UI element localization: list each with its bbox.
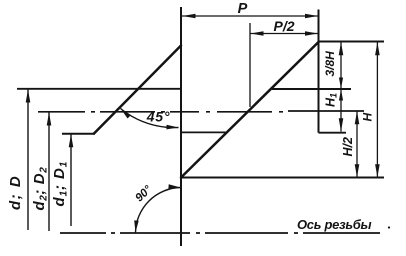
arrowhead H/2 top <box>355 111 360 124</box>
svg-text:3/8H: 3/8H <box>323 51 337 77</box>
arrowhead d;D <box>26 90 31 103</box>
major diameter line left (d;D level) <box>17 88 181 90</box>
major diameter line right (3/8H boundary) <box>272 88 351 90</box>
dimension line H/2 <box>356 111 358 178</box>
period speck after axis label <box>388 226 390 228</box>
angle arc 90deg <box>136 188 181 233</box>
arrowhead 45 upper on flank <box>121 109 131 119</box>
arrowhead 3/8H top <box>339 42 344 55</box>
svg-text:d2; D2: d2; D2 <box>31 167 50 211</box>
arrowhead d2;D2 <box>47 113 52 126</box>
arrowhead 90 upper on vertical <box>168 184 180 189</box>
arrowhead 3/8H bottom <box>339 78 343 89</box>
arrowhead 45 lower on vertical <box>166 125 178 130</box>
arrowhead P left <box>183 14 196 19</box>
arrowhead P/2 left <box>251 31 264 36</box>
arrowhead P/2 right <box>305 31 318 36</box>
svg-text:P: P <box>238 1 248 17</box>
left thread flank 45deg <box>94 46 181 134</box>
arrowhead H bottom <box>375 164 380 177</box>
svg-text:P/2: P/2 <box>273 18 294 34</box>
svg-text:d1; D1: d1; D1 <box>51 161 70 207</box>
dimension line d;D <box>27 89 29 230</box>
pitch line dash-dot <box>38 111 283 113</box>
root line bottom of fundamental triangle <box>181 177 384 179</box>
svg-text:45°: 45° <box>146 109 171 125</box>
svg-text:Ось резьбы: Ось резьбы <box>297 217 372 232</box>
dimension line H <box>376 42 378 178</box>
arrowhead 90 lower on axis <box>134 220 139 232</box>
dimension line 3/8H and H1 shared <box>340 42 342 132</box>
svg-text:d; D: d; D <box>7 175 24 210</box>
thread axis dash-dot line <box>60 232 380 234</box>
main vertical section line x=181 <box>180 7 182 246</box>
step root segment at tooth back (d1;D1 level) <box>319 132 347 134</box>
arrowhead H top <box>375 42 380 55</box>
internal root segment right of axis (d1;D1 level) <box>181 131 226 133</box>
dimension line d2;D2 <box>48 112 50 231</box>
dimension line P/2 <box>250 33 319 35</box>
tooth back edge vertical x=318.5 <box>318 10 320 133</box>
arrowhead H1 top <box>339 90 343 101</box>
right thread flank 45deg <box>181 42 319 178</box>
arrowhead H/2 bottom <box>355 164 360 177</box>
arrowhead P right <box>305 14 318 19</box>
arrowhead d1;D1 <box>69 134 74 147</box>
svg-text:H: H <box>361 113 375 122</box>
left root segment d1 level <box>62 133 95 135</box>
crest line top of fundamental triangle <box>319 41 385 43</box>
angle arc 45deg <box>121 109 179 128</box>
svg-text:H/2: H/2 <box>341 137 355 157</box>
pitch line solid right end <box>288 110 364 112</box>
arrowhead H1 bottom <box>339 118 344 131</box>
dimension line d1;D1 <box>70 134 72 226</box>
dimension line P <box>182 15 319 17</box>
extension line for P/2 at x=250 <box>249 23 251 107</box>
